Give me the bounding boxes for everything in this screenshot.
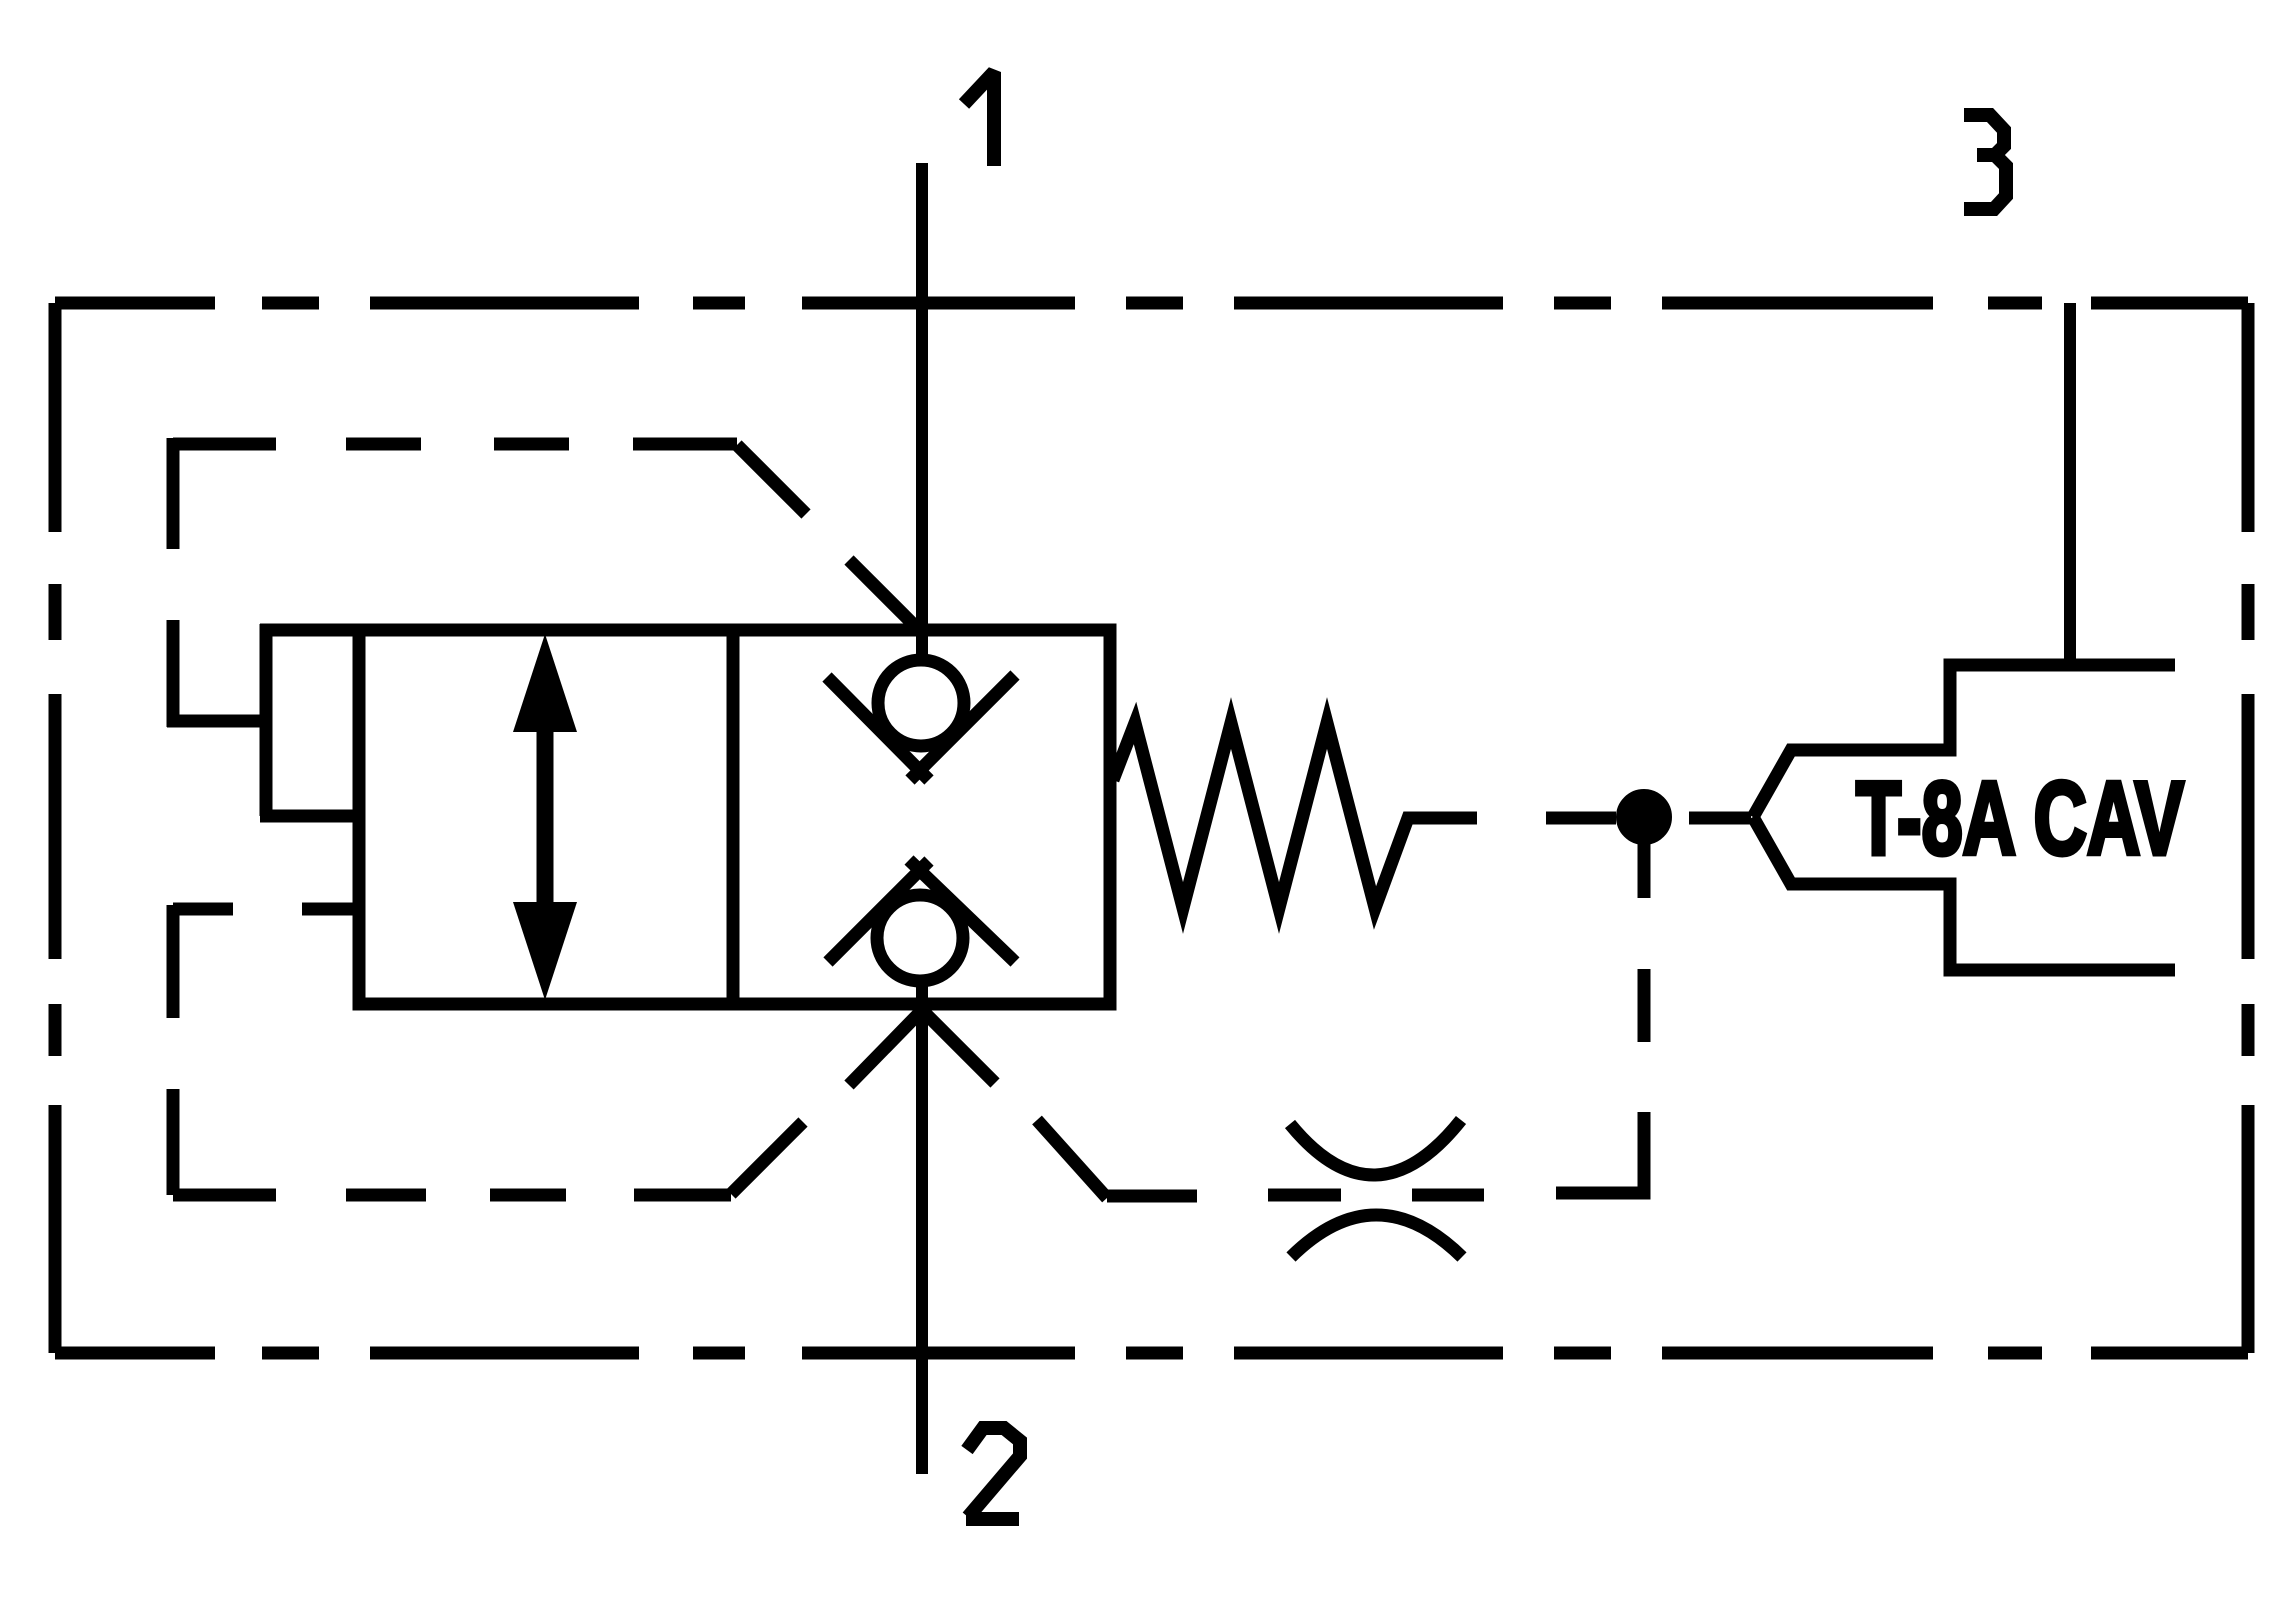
junction node dot <box>1618 791 1670 843</box>
pilot diagonal dash top <box>737 445 806 514</box>
cavity T-8A upper outline <box>1753 665 2175 817</box>
check valve seat chevron top <box>827 675 1015 780</box>
port label 1 <box>964 72 994 166</box>
double-headed arrow top head <box>513 634 577 732</box>
pilot drain stub below junction <box>1638 843 1651 898</box>
pilot rectangle bottom edge dash a <box>173 1189 276 1202</box>
envelope boundary bottom edge <box>55 1347 2248 1360</box>
spring <box>1113 723 1477 908</box>
check valve seat chevron bottom <box>828 860 1015 962</box>
double-headed arrow shaft <box>537 720 554 915</box>
port 3 line <box>2064 303 2076 665</box>
pilot drain horizontal dash left of orifice <box>1268 1189 1341 1202</box>
pilot drain horizontal dash to diagonal <box>1107 1190 1197 1203</box>
pilot rectangle bottom edge dash c <box>490 1189 566 1202</box>
pilot rectangle left edge dash a <box>167 438 180 549</box>
envelope boundary right edge <box>2242 303 2255 1353</box>
pilot drain dash 1 <box>1638 969 1651 1042</box>
pilot piston cap top edge <box>260 624 359 637</box>
svg-text:T-8A CAV: T-8A CAV <box>1856 761 2184 877</box>
pilot rectangle left edge dash b <box>167 620 180 727</box>
pilot rectangle left edge dash c <box>167 905 180 1018</box>
double-headed arrow bottom head <box>513 902 577 1000</box>
check valve poppet ball bottom <box>877 895 963 981</box>
pilot rectangle top edge dash d <box>633 438 737 451</box>
pilot seat arm top <box>849 560 925 636</box>
pilot drain diagonal dash right <box>1037 1120 1107 1198</box>
pilot drain dash 2 with corner <box>1556 1112 1644 1193</box>
pilot piston cap bottom edge <box>260 810 359 823</box>
envelope boundary left edge <box>49 303 62 1353</box>
port 1 line <box>916 163 928 661</box>
cavity T-8A lower outline <box>1753 817 2175 970</box>
pilot tap dash to box dash b <box>302 903 359 916</box>
pilot tap dash to box dash a <box>173 903 233 916</box>
pilot rectangle left edge dash d <box>167 1089 180 1195</box>
pilot drain horizontal dash right of orifice <box>1412 1189 1484 1202</box>
orifice upper arc <box>1290 1120 1461 1175</box>
pilot seat arm bottom right <box>913 1001 995 1083</box>
pilot line junction to cavity <box>1689 812 1751 825</box>
pilot rectangle bottom edge dash b <box>346 1189 426 1202</box>
valve body partition <box>727 630 740 1004</box>
pilot rectangle bottom edge dash d <box>634 1189 731 1202</box>
pilot rectangle top edge dash a <box>173 438 276 451</box>
pilot rectangle top edge dash b <box>346 438 421 451</box>
pilot line spring to junction <box>1546 812 1616 825</box>
orifice lower arc <box>1291 1215 1462 1257</box>
pilot piston cap left edge <box>260 624 273 816</box>
valve body main box <box>359 630 1110 1004</box>
pilot seat arm bottom left <box>849 1001 931 1085</box>
pilot diagonal dash bottom <box>731 1122 803 1194</box>
port label 2 <box>966 1428 1020 1519</box>
check valve poppet ball top <box>878 660 964 746</box>
pilot rectangle top edge dash c <box>494 438 569 451</box>
port 2 line <box>916 984 928 1474</box>
pilot tap line to cap <box>167 715 266 728</box>
port label 3 <box>1964 115 2006 209</box>
envelope boundary top edge <box>55 297 2248 310</box>
